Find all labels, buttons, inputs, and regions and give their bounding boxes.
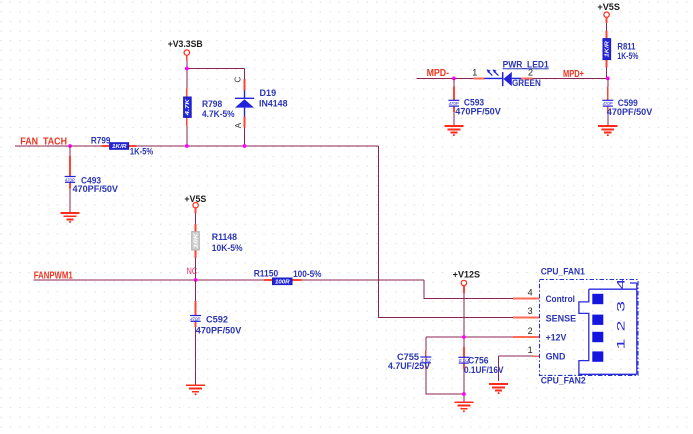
value 470PF/50V	[73, 184, 119, 194]
svg-text:100R: 100R	[275, 279, 290, 285]
svg-text:4: 4	[615, 279, 627, 290]
svg-text:+12V: +12V	[546, 332, 567, 342]
power symbol +V5S (middle)	[184, 194, 206, 214]
pin number 2 (LED)	[528, 67, 533, 77]
ground C493	[61, 213, 80, 223]
svg-text:CPU_FAN1: CPU_FAN1	[541, 267, 585, 277]
svg-text:MPD-: MPD-	[427, 68, 450, 79]
resistor R1148	[192, 214, 200, 281]
svg-text:PWR_LED1: PWR_LED1	[503, 59, 549, 69]
svg-text:C592: C592	[206, 315, 228, 325]
svg-text:+V5S: +V5S	[597, 2, 620, 12]
svg-text:C: C	[234, 77, 243, 83]
pin stub 2 +12V	[513, 336, 540, 338]
ground GND pin	[489, 384, 508, 394]
svg-text:IN4148: IN4148	[259, 99, 288, 109]
svg-text:100-5%: 100-5%	[293, 269, 321, 279]
svg-text:GND: GND	[546, 352, 566, 362]
wire FAN_TACH horizontal	[15, 146, 513, 318]
value 1K-5%	[130, 147, 153, 157]
connector digit 2	[615, 321, 627, 332]
svg-text:470P: 470P	[603, 101, 613, 106]
svg-text:+V12S: +V12S	[453, 269, 480, 279]
wire FANPWM1 horizontal	[34, 280, 514, 299]
connector digit 3	[615, 301, 627, 312]
junction node R798 top	[185, 67, 189, 71]
wire MPD+	[532, 77, 608, 79]
capacitor C493	[65, 177, 76, 183]
value 470PF/50V	[455, 107, 501, 117]
value 470PF/50V	[607, 107, 653, 117]
power symbol +V5S (right)	[597, 2, 620, 23]
power symbol +V3.3SB	[168, 39, 203, 61]
pin number 2	[528, 326, 533, 336]
svg-text:470PF/50V: 470PF/50V	[607, 107, 653, 117]
svg-text:3: 3	[615, 301, 627, 312]
pin label C	[234, 77, 243, 83]
svg-text:470PF/50V: 470PF/50V	[196, 326, 242, 336]
svg-text:1K/R: 1K/R	[605, 41, 611, 58]
label C592	[206, 315, 228, 325]
svg-text:10K: 10K	[193, 233, 199, 249]
wire MPD-	[417, 77, 474, 79]
ground C599	[598, 126, 617, 136]
svg-text:R798: R798	[202, 99, 222, 109]
label R1148	[212, 232, 237, 242]
svg-text:1: 1	[528, 345, 533, 355]
value 1K-5%	[617, 51, 638, 61]
LED PWR_LED1	[473, 69, 532, 86]
wire C593 drop	[453, 78, 455, 125]
junction node MPD+/R811	[606, 77, 610, 81]
svg-text:3: 3	[528, 306, 533, 316]
connector digit 4	[615, 279, 627, 290]
pin name Control	[546, 294, 575, 304]
resistor R798	[184, 89, 192, 146]
svg-text:R1148: R1148	[212, 232, 237, 242]
svg-text:470PF/50V: 470PF/50V	[455, 107, 501, 117]
wire GND pin drop	[499, 356, 533, 381]
net label NC	[187, 266, 198, 276]
wire V3.3SB node to top	[187, 61, 245, 89]
svg-text:C756: C756	[468, 356, 489, 366]
capacitor C592	[190, 316, 201, 322]
capacitor C599	[602, 100, 613, 106]
pin number 4	[528, 287, 533, 297]
svg-text:+V3.3SB: +V3.3SB	[168, 39, 203, 49]
pin number 1 (LED)	[472, 67, 477, 77]
value 10K-5%	[212, 243, 243, 253]
hierarchical block CPU_FAN1 dashed border	[540, 280, 639, 376]
svg-text:D19: D19	[260, 88, 277, 98]
pin stub 4 Control	[513, 298, 540, 300]
label R1150	[254, 269, 279, 279]
connector digit 1	[615, 339, 627, 350]
resistor R1150	[264, 278, 301, 285]
resistor R799	[102, 143, 137, 150]
svg-text:SENSE: SENSE	[546, 313, 577, 323]
junction node D19 bottom	[243, 144, 247, 148]
svg-text:2: 2	[528, 326, 533, 336]
capacitor C756	[458, 347, 469, 369]
label R799	[91, 135, 111, 145]
label PWR_LED1	[503, 59, 549, 69]
label CPU_FAN2	[541, 376, 586, 386]
value 100-5%	[293, 269, 321, 279]
connector U_CPU_FAN body	[579, 283, 637, 374]
label C756	[468, 356, 489, 366]
svg-text:FAN_TACH: FAN_TACH	[20, 136, 67, 147]
junction node FAN_TACH/C493	[68, 144, 72, 148]
svg-text:MPD+: MPD+	[563, 69, 584, 80]
junction node R798 bottom	[185, 144, 189, 148]
label CPU_FAN1	[541, 267, 585, 277]
value 470PF/50V	[196, 326, 242, 336]
connector pin square 3	[592, 315, 603, 325]
capacitor C593	[448, 100, 459, 106]
pin name +12V	[546, 332, 567, 342]
value 0.1UF/16V	[464, 365, 504, 375]
pin number 1	[528, 345, 533, 355]
label R798	[202, 99, 222, 109]
net label FAN_TACH	[20, 136, 67, 147]
connector pin square 2	[592, 332, 603, 342]
ground C593	[444, 126, 463, 136]
svg-text:R1150: R1150	[254, 269, 279, 279]
power symbol +V12S	[453, 269, 480, 293]
wire +12V net	[426, 293, 513, 402]
svg-text:R811: R811	[617, 41, 635, 51]
svg-text:4.7K-5%: 4.7K-5%	[202, 109, 235, 119]
pin name SENSE	[546, 313, 577, 323]
label C599	[618, 98, 638, 108]
junction node FANPWM1/R1148	[194, 278, 198, 282]
wire C493 drop	[69, 146, 71, 212]
svg-text:2: 2	[615, 321, 627, 332]
junction node +12V/C756	[462, 335, 466, 339]
wire C592 drop	[195, 280, 197, 385]
value 4.7K-5%	[202, 109, 235, 119]
label R811	[617, 41, 635, 51]
value GREEN	[512, 78, 541, 88]
svg-text:NC: NC	[187, 266, 198, 276]
svg-text:CPU_FAN2: CPU_FAN2	[541, 376, 586, 386]
svg-text:Control: Control	[546, 294, 575, 304]
svg-text:470P: 470P	[190, 316, 200, 321]
value 4.7UF/25V	[388, 361, 430, 371]
svg-text:10K-5%: 10K-5%	[212, 243, 243, 253]
svg-text:1K-5%: 1K-5%	[617, 51, 638, 61]
svg-text:1: 1	[472, 67, 477, 77]
label C493	[81, 176, 101, 186]
pin stub 3 SENSE	[513, 317, 540, 319]
ground C592	[186, 385, 205, 395]
diode D19	[235, 79, 254, 146]
svg-text:GREEN: GREEN	[512, 78, 541, 88]
pin label A	[234, 122, 243, 128]
net label MPD-	[427, 68, 450, 79]
label D19	[260, 88, 277, 98]
svg-text:4.7UF/25V: 4.7UF/25V	[388, 361, 430, 371]
connector pin square 1	[592, 351, 603, 361]
label C755	[397, 352, 419, 362]
net label MPD+	[563, 69, 584, 80]
pin stub 1 GND	[533, 355, 540, 357]
svg-text:470P: 470P	[449, 101, 459, 106]
svg-text:4.7K: 4.7K	[185, 99, 191, 117]
svg-text:A: A	[234, 122, 243, 128]
wire C599 drop	[607, 78, 609, 125]
svg-text:1: 1	[615, 339, 627, 350]
svg-text:4: 4	[528, 287, 533, 297]
svg-text:0.1UF/16V: 0.1UF/16V	[464, 365, 504, 375]
junction node MPD-/C593	[452, 77, 456, 81]
svg-text:1K-5%: 1K-5%	[130, 147, 153, 157]
svg-text:470PF/50V: 470PF/50V	[73, 184, 119, 194]
net label FANPWM1	[34, 271, 73, 282]
junction node C755/C756 gnd	[462, 392, 466, 396]
connector pin square 4	[592, 294, 603, 304]
value IN4148	[259, 99, 288, 109]
pin name GND	[546, 352, 566, 362]
svg-text:470P: 470P	[65, 177, 75, 182]
svg-text:R799: R799	[91, 135, 111, 145]
capacitor C755	[420, 351, 431, 369]
ground C755/C756	[454, 402, 473, 412]
svg-text:1K/R: 1K/R	[112, 144, 127, 150]
resistor R811	[603, 23, 611, 78]
pin number 3	[528, 306, 533, 316]
label C593	[464, 97, 484, 107]
